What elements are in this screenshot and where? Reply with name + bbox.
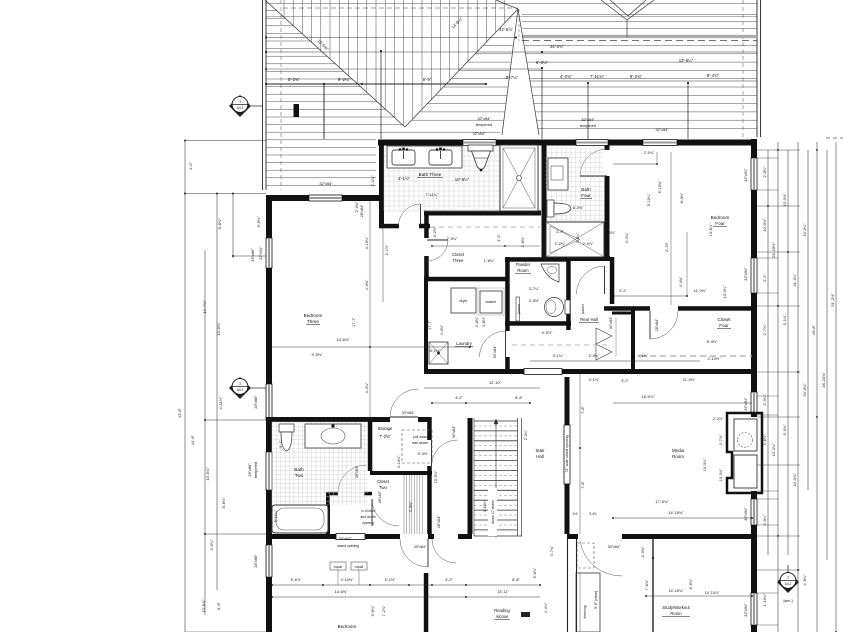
svg-text:5'-1½": 5'-1½" — [385, 578, 396, 582]
stair bottom thin line — [474, 535, 522, 537]
svg-text:℅ of door: ℅ of door — [361, 509, 376, 513]
svg-text:13'-0½": 13'-0½" — [782, 193, 787, 207]
svg-text:Room: Room — [517, 268, 529, 273]
study closet shelving — [576, 573, 600, 632]
svg-text:2'-7⅝": 2'-7⅝" — [719, 434, 723, 445]
svg-text:7'-11¼": 7'-11¼" — [426, 192, 439, 197]
svg-text:44'-8⅞": 44'-8⅞" — [499, 27, 513, 32]
svg-text:51'-2½": 51'-2½" — [830, 293, 835, 307]
svg-text:14'-10⅞": 14'-10⅞" — [705, 591, 721, 595]
svg-text:Three: Three — [453, 258, 465, 263]
svg-text:2'-2⅞": 2'-2⅞" — [713, 417, 724, 421]
svg-text:28"x66": 28"x66" — [253, 395, 258, 409]
svg-text:Hall: Hall — [536, 454, 544, 459]
svg-text:A4.2: A4.2 — [237, 106, 244, 110]
svg-text:7'-6⅝": 7'-6⅝" — [645, 579, 649, 590]
svg-text:28"x84": 28"x84" — [655, 318, 659, 331]
svg-text:Four: Four — [715, 221, 725, 226]
stair hall east wall with 72in cased opening — [565, 377, 570, 425]
svg-text:3'-1¼": 3'-1¼" — [553, 354, 564, 358]
svg-text:5'-10¼": 5'-10¼" — [647, 193, 651, 206]
svg-text:28"x84": 28"x84" — [355, 465, 359, 478]
svg-text:3'-1⅞": 3'-1⅞" — [782, 314, 787, 326]
bath four south wall — [544, 256, 610, 261]
svg-text:10'-3⅝": 10'-3⅝" — [719, 468, 723, 481]
door bedroom four from rear hall — [577, 266, 605, 294]
svg-text:9'-8⅜": 9'-8⅜" — [217, 218, 222, 230]
svg-text:9'-3½": 9'-3½" — [418, 452, 429, 456]
svg-text:4'-2": 4'-2" — [455, 396, 463, 400]
svg-text:17'-7": 17'-7" — [428, 320, 432, 330]
stair stringer lines — [517, 418, 519, 536]
svg-text:13'-6¼": 13'-6¼" — [679, 58, 694, 63]
svg-text:34'-3¾": 34'-3¾" — [550, 44, 564, 49]
svg-text:30"x84": 30"x84" — [402, 411, 415, 415]
svg-text:30"x84": 30"x84" — [414, 545, 427, 549]
svg-text:8'-6½": 8'-6½" — [221, 497, 226, 509]
svg-text:Room: Room — [672, 454, 684, 459]
roof plan hatch - wedge below valley D2 — [412, 46, 513, 121]
roof left eave double line — [262, 0, 264, 190]
bath two tub — [272, 505, 328, 533]
svg-text:31'-0¼": 31'-0¼" — [792, 273, 797, 287]
svg-text:4'-2": 4'-2" — [445, 578, 453, 582]
svg-text:Three: Three — [307, 319, 319, 324]
svg-text:13'-6⅞": 13'-6⅞" — [709, 223, 713, 236]
svg-text:30"x64": 30"x64" — [339, 537, 352, 541]
svg-text:2'-8¾": 2'-8¾" — [762, 166, 767, 178]
exterior wall left (west) — [266, 195, 272, 238]
svg-text:28"x84": 28"x84" — [378, 490, 382, 503]
svg-text:4'-1⅜": 4'-1⅜" — [589, 378, 600, 382]
svg-text:2'-9⅞": 2'-9⅞" — [583, 242, 594, 246]
bifold closet doors rear hall — [596, 328, 612, 344]
svg-text:4'-0¾": 4'-0¾" — [560, 74, 573, 79]
svg-text:2'-0¾": 2'-0¾" — [644, 151, 655, 155]
svg-text:pocket: pocket — [581, 304, 585, 314]
pull-down stair dashed rect — [402, 430, 432, 463]
svg-text:72" wide cased opening: 72" wide cased opening — [565, 435, 569, 472]
svg-text:2'-0¾": 2'-0¾" — [641, 546, 645, 557]
svg-text:shelving: shelving — [583, 605, 587, 618]
svg-text:Rear Hall: Rear Hall — [580, 317, 598, 322]
svg-text:5'-10¼": 5'-10¼" — [274, 509, 278, 522]
svg-text:6'-0½": 6'-0½" — [573, 206, 584, 210]
svg-text:2'-0¾": 2'-0¾" — [524, 429, 528, 440]
svg-text:3'-9⅞": 3'-9⅞" — [605, 231, 616, 235]
svg-text:28"x84": 28"x84" — [437, 515, 441, 528]
cased opening 94in — [524, 369, 562, 375]
svg-text:4'-1½": 4'-1½" — [398, 176, 411, 181]
svg-text:14'-6⅜": 14'-6⅜" — [336, 337, 350, 342]
svg-text:2'-1½": 2'-1½" — [385, 244, 389, 255]
svg-text:2'-10½": 2'-10½" — [708, 357, 721, 361]
svg-text:13'-11": 13'-11" — [497, 590, 509, 594]
laundry west wall — [424, 279, 428, 371]
svg-text:Four: Four — [719, 323, 729, 328]
svg-text:32"x54": 32"x54" — [655, 127, 669, 132]
svg-text:Two: Two — [379, 485, 387, 490]
svg-text:2'-10": 2'-10" — [665, 242, 669, 252]
closet three / laundry divider wall — [424, 277, 508, 282]
bath three sink 2 — [429, 150, 452, 165]
svg-text:4'-0": 4'-0" — [188, 162, 193, 170]
svg-text:2'-7⅝": 2'-7⅝" — [762, 324, 767, 336]
svg-text:cased opening: cased opening — [337, 544, 359, 548]
svg-text:13'-0¼": 13'-0¼" — [723, 285, 727, 298]
svg-text:13'-6⅞": 13'-6⅞" — [201, 599, 206, 613]
hall dashed centerline rear hall — [512, 344, 608, 346]
bath three south wall / corridor north — [424, 211, 541, 216]
right dimension lines — [767, 150, 769, 555]
powder room sink — [541, 264, 559, 282]
svg-text:9'-2¾": 9'-2¾" — [630, 74, 643, 79]
closet four north wall with door opening — [604, 306, 650, 311]
svg-text:30"x84": 30"x84" — [493, 345, 497, 358]
bedroom three south wall / bath two north — [266, 417, 390, 422]
exterior wall right (east) — [751, 139, 757, 158]
svg-text:1: 1 — [787, 576, 789, 580]
door vestibule to closet two — [372, 499, 399, 526]
svg-text:8'-4¾": 8'-4¾" — [707, 73, 720, 78]
svg-text:10'-7⅜": 10'-7⅜" — [202, 300, 207, 314]
svg-text:washer: washer — [486, 300, 498, 304]
svg-text:4'-4¼": 4'-4¼" — [365, 382, 369, 393]
svg-text:28"x66": 28"x66" — [247, 463, 252, 477]
svg-text:4'-4⅛": 4'-4⅛" — [625, 232, 629, 243]
svg-text:4'-4¾": 4'-4¾" — [679, 276, 683, 287]
svg-text:10'-6½": 10'-6½" — [455, 177, 470, 182]
svg-text:9'-6⅛": 9'-6⅛" — [371, 605, 375, 616]
cased opening bath two — [336, 534, 365, 540]
svg-text:A4.2: A4.2 — [785, 582, 792, 586]
roof hip peak lines — [502, 9, 518, 135]
roof valley line D1 — [265, 0, 405, 127]
svg-text:4'-8½": 4'-8½" — [482, 316, 486, 327]
bath three shower — [500, 145, 538, 211]
svg-text:48'-10⅝": 48'-10⅝" — [821, 372, 826, 388]
svg-text:A4.2: A4.2 — [237, 388, 244, 392]
svg-text:4'-10¾": 4'-10¾" — [762, 593, 767, 607]
roof ridge gray band right — [522, 35, 757, 38]
bedroom door post bottom — [424, 573, 429, 632]
svg-text:9'-9": 9'-9" — [423, 77, 432, 82]
roof dim line 44ft — [266, 37, 516, 39]
svg-text:5'-8⅜": 5'-8⅜" — [256, 216, 261, 228]
svg-text:4'-7⅜": 4'-7⅜" — [541, 174, 545, 185]
roof wall-below dashed line left — [280, 0, 282, 190]
svg-text:Closet: Closet — [717, 317, 731, 322]
svg-text:7'-6": 7'-6" — [581, 406, 585, 414]
upper corridor dim line — [432, 245, 540, 247]
svg-text:28"x66": 28"x66" — [250, 248, 255, 262]
powder room south wall — [505, 321, 571, 326]
svg-text:4'-0¾": 4'-0¾" — [365, 279, 369, 290]
roof top full-width line — [266, 3, 757, 5]
svg-text:4'-11½": 4'-11½" — [218, 396, 223, 409]
storage / closet two divider — [370, 471, 432, 475]
door laundry — [480, 331, 506, 357]
svg-text:3'-9⅜": 3'-9⅜" — [409, 501, 413, 512]
fireplace media room — [727, 413, 762, 493]
roof plan hatch - V interior vertical rafter lines — [284, 0, 505, 126]
svg-text:opening: opening — [362, 521, 374, 525]
svg-text:Four: Four — [581, 193, 591, 198]
svg-text:and closet: and closet — [360, 515, 375, 519]
door vestibule to bath two — [338, 465, 366, 493]
svg-text:30"x84": 30"x84" — [608, 545, 621, 549]
svg-text:2'-9¼": 2'-9¼" — [589, 354, 600, 358]
roof dimension line left with ticks — [266, 83, 486, 85]
powder room north wall — [505, 257, 570, 262]
bath four tub — [546, 222, 604, 257]
passage wall below stair hall (double line) — [567, 539, 569, 632]
svg-text:16'-0⅞": 16'-0⅞" — [641, 394, 655, 399]
svg-text:4'-10¼": 4'-10¼" — [397, 455, 401, 468]
svg-text:Closet: Closet — [377, 479, 390, 484]
linen closet dashes — [615, 318, 617, 356]
bath three sink 1 — [392, 150, 415, 165]
svg-text:9'-2¼": 9'-2¼" — [338, 77, 351, 82]
svg-text:10'-0¼": 10'-0¼" — [802, 223, 807, 237]
svg-text:[sim.]: [sim.] — [783, 599, 792, 603]
svg-text:10'-5⅞": 10'-5⅞" — [205, 467, 210, 481]
svg-text:10'-0½": 10'-0½" — [762, 218, 767, 232]
svg-text:11'-0⅝": 11'-0⅝" — [694, 289, 707, 293]
svg-text:dryer: dryer — [460, 299, 469, 303]
svg-text:1: 1 — [239, 100, 241, 104]
svg-text:3'-5⅞": 3'-5⅞" — [576, 232, 580, 243]
svg-text:3'-10½": 3'-10½" — [341, 578, 354, 582]
bath two vanity — [305, 424, 361, 448]
svg-text:9'-0⅝": 9'-0⅝" — [782, 424, 787, 436]
stair centerline and label down 17 risers — [495, 421, 497, 537]
door stair hall to bedroom band — [580, 541, 622, 576]
svg-text:20'-3⅛": 20'-3⅛" — [802, 383, 807, 397]
svg-text:Bedroom: Bedroom — [338, 624, 357, 629]
door closet four — [650, 311, 678, 339]
section marker diamond bottom-right — [777, 571, 799, 593]
svg-text:8'-4⅛": 8'-4⅛" — [707, 340, 718, 344]
bath two vestibule walls — [326, 492, 330, 536]
roof plan hatch - right facet horizontal decking lines — [522, 15, 758, 129]
svg-text:stair above: stair above — [412, 441, 428, 445]
svg-text:tempered: tempered — [580, 123, 596, 128]
svg-text:11'-0⅝": 11'-0⅝" — [683, 378, 696, 382]
svg-text:32"x54": 32"x54" — [743, 507, 748, 521]
svg-text:32"x54": 32"x54" — [743, 603, 748, 617]
svg-text:13'-0⅜": 13'-0⅜" — [216, 322, 221, 336]
svg-text:32"x54": 32"x54" — [477, 116, 491, 121]
svg-text:17'-5¾": 17'-5¾" — [655, 499, 669, 504]
door closet three — [427, 240, 448, 261]
svg-text:7'-6": 7'-6" — [581, 481, 585, 489]
pocket door powder hall — [516, 297, 520, 321]
svg-text:4'-10¼": 4'-10¼" — [365, 236, 369, 249]
interior dim texts bedroom three — [272, 346, 470, 348]
roof ridge dashed line upper-left — [283, 7, 518, 9]
svg-text:14'-6⅝": 14'-6⅝" — [335, 590, 348, 594]
svg-text:3'-2½": 3'-2½" — [433, 226, 437, 237]
interior dim texts bottom band — [330, 562, 346, 570]
svg-text:2'-2": 2'-2" — [619, 289, 627, 293]
bath four toilet — [547, 200, 554, 217]
roof plan hatch - left facet horizontal decking lines — [266, 11, 500, 186]
svg-text:9'-5⅜": 9'-5⅜" — [312, 352, 324, 357]
svg-text:7'-3⅝": 7'-3⅝" — [379, 434, 391, 439]
svg-text:equal: equal — [355, 565, 363, 569]
svg-text:2'-9": 2'-9" — [556, 230, 564, 234]
svg-text:2'-0¾": 2'-0¾" — [209, 539, 214, 551]
svg-text:3-4⅛: 3-4⅛ — [589, 512, 597, 516]
svg-text:Bath: Bath — [294, 467, 304, 472]
svg-text:4'-4¼": 4'-4¼" — [544, 602, 548, 613]
svg-text:1'-6⅛": 1'-6⅛" — [484, 259, 495, 263]
hall dashed centerline upper corridor — [430, 226, 540, 228]
roof long thin lines crossing valley — [266, 16, 757, 18]
svg-text:32"x54": 32"x54" — [581, 117, 595, 122]
bath two toilet — [279, 424, 294, 432]
svg-text:8'-9": 8'-9" — [216, 602, 221, 610]
svg-text:23'-10½": 23'-10½" — [771, 242, 776, 258]
stair treads — [474, 421, 518, 530]
laundry dryer — [451, 288, 476, 313]
svg-text:9'-6⅛": 9'-6⅛" — [533, 567, 537, 578]
powder room east wall — [566, 257, 571, 330]
svg-text:7'-11¾": 7'-11¾" — [590, 74, 605, 79]
section marker diamond top-left — [229, 95, 251, 117]
svg-text:4'-3": 4'-3" — [497, 234, 501, 242]
svg-text:4'-6⅜": 4'-6⅜" — [762, 434, 767, 446]
svg-text:equal: equal — [334, 565, 342, 569]
svg-text:32"x54": 32"x54" — [743, 168, 748, 182]
roof dim dropper x381 — [380, 51, 382, 139]
svg-text:2'-1⅜": 2'-1⅜" — [370, 175, 375, 187]
svg-text:2'-4": 2'-4" — [762, 274, 767, 282]
svg-text:Closet: Closet — [452, 252, 465, 257]
svg-text:3'-7¾": 3'-7¾" — [550, 545, 554, 556]
right edge gray dash stub — [826, 137, 843, 139]
svg-text:tempered: tempered — [253, 462, 258, 478]
svg-text:4'-6¾": 4'-6¾" — [802, 574, 807, 586]
svg-text:4'-0½": 4'-0½" — [440, 324, 444, 335]
svg-text:5'-6⅞": 5'-6⅞" — [291, 578, 302, 582]
closet three west wall — [424, 213, 429, 238]
svg-text:6'-0¼": 6'-0¼" — [536, 60, 549, 65]
roof right eave double line — [756, 0, 758, 137]
svg-text:Room: Room — [670, 611, 682, 616]
svg-text:8'-8": 8'-8" — [515, 396, 523, 400]
svg-text:4'-1⅜": 4'-1⅜" — [638, 354, 649, 358]
bath two tile floor — [272, 422, 368, 505]
svg-text:Bedroom: Bedroom — [711, 215, 730, 220]
svg-text:Bath Three: Bath Three — [419, 172, 442, 177]
svg-text:32"x54": 32"x54" — [473, 132, 486, 136]
svg-text:2'-0¾": 2'-0¾" — [355, 201, 359, 212]
roof wall-below dashed line right — [742, 0, 744, 137]
main long wall center (south of hall/closet four) — [424, 369, 524, 374]
roof dim droppers right — [541, 68, 543, 139]
bedroom four west wall / bath four east wall — [605, 145, 610, 150]
svg-text:Study/Workout: Study/Workout — [662, 605, 690, 610]
storage/closet two west wall (bath two east) — [368, 417, 373, 471]
svg-text:8'-6⅛": 8'-6⅛" — [689, 578, 693, 589]
svg-text:Media: Media — [672, 448, 685, 453]
roof gable lines top right — [610, 0, 628, 16]
roof valley line D2 — [405, 9, 518, 127]
stair west wall — [468, 418, 473, 534]
svg-text:down 17 risers: down 17 risers — [491, 500, 495, 524]
svg-text:Stair: Stair — [535, 448, 545, 453]
bath three west wall — [379, 145, 384, 224]
laundry washer — [480, 291, 502, 313]
svg-text:2'-2⅛": 2'-2⅛" — [555, 242, 566, 246]
storage east wall (corridor west) — [427, 417, 432, 440]
chimney solid rect — [294, 104, 300, 117]
svg-text:2'-0¼": 2'-0¼" — [762, 514, 767, 526]
svg-text:7'-2⅝": 7'-2⅝" — [382, 605, 386, 616]
svg-text:4'-10¼": 4'-10¼" — [483, 499, 487, 512]
svg-text:3'-5½": 3'-5½" — [529, 299, 540, 303]
svg-text:32"x54": 32"x54" — [258, 246, 263, 260]
section marker diamond mid-left — [229, 377, 251, 399]
svg-text:8'-7¼": 8'-7¼" — [506, 75, 519, 80]
svg-text:8'-8": 8'-8" — [512, 578, 520, 582]
svg-text:Bedroom: Bedroom — [304, 313, 323, 318]
svg-text:Laundry: Laundry — [456, 341, 473, 346]
laundry east wall with door opening — [505, 257, 510, 331]
svg-text:14'-10¾": 14'-10¾" — [668, 510, 684, 515]
rear hall east wall upper — [610, 257, 615, 304]
svg-text:44'-8": 44'-8" — [190, 434, 195, 445]
laundry sink — [429, 342, 448, 364]
door storage from bedroom three — [390, 389, 418, 417]
svg-text:14'-10¾": 14'-10¾" — [668, 588, 684, 593]
svg-text:Reading: Reading — [494, 608, 510, 613]
peak flue dashed line — [518, 9, 520, 41]
svg-text:10'-3⅝": 10'-3⅝" — [792, 473, 797, 487]
exterior wall top (north) — [378, 140, 463, 146]
svg-text:Alcove: Alcove — [496, 614, 509, 619]
svg-text:5'-1½": 5'-1½" — [430, 349, 441, 353]
svg-text:49'-8": 49'-8" — [811, 324, 816, 335]
svg-text:pocket: pocket — [517, 304, 521, 314]
right dim ticks — [757, 149, 800, 151]
svg-text:2'-0¼": 2'-0¼" — [762, 394, 767, 406]
svg-text:2'-6⅜": 2'-6⅜" — [521, 236, 525, 247]
svg-text:30"x84": 30"x84" — [452, 425, 456, 438]
svg-text:12'-10": 12'-10" — [489, 380, 502, 385]
svg-text:10'-3⅛": 10'-3⅛" — [703, 458, 707, 471]
roof dim line 34ft — [266, 51, 757, 53]
bedroom three / bath three jog wall with door opening — [379, 224, 399, 229]
rear hall small closets walls — [631, 308, 635, 371]
bath three toilet — [468, 145, 493, 151]
svg-text:32"x54": 32"x54" — [743, 267, 748, 281]
svg-text:tempered: tempered — [476, 122, 492, 127]
closet four rod dashed line — [640, 355, 752, 357]
svg-text:9'-7": 9'-7" — [279, 440, 283, 448]
svg-text:3'-2": 3'-2" — [621, 379, 629, 383]
svg-text:pull down: pull down — [413, 435, 427, 439]
svg-text:7'-9¼": 7'-9¼" — [447, 237, 458, 241]
svg-text:9'-10¾": 9'-10¾" — [658, 180, 662, 193]
svg-text:9'-5⅞": 9'-5⅞" — [542, 331, 553, 335]
bath four tile floor — [547, 148, 604, 222]
door bath four — [580, 149, 607, 176]
svg-text:30"x84": 30"x84" — [609, 316, 613, 329]
svg-text:5'-2⅜": 5'-2⅜" — [288, 77, 301, 82]
